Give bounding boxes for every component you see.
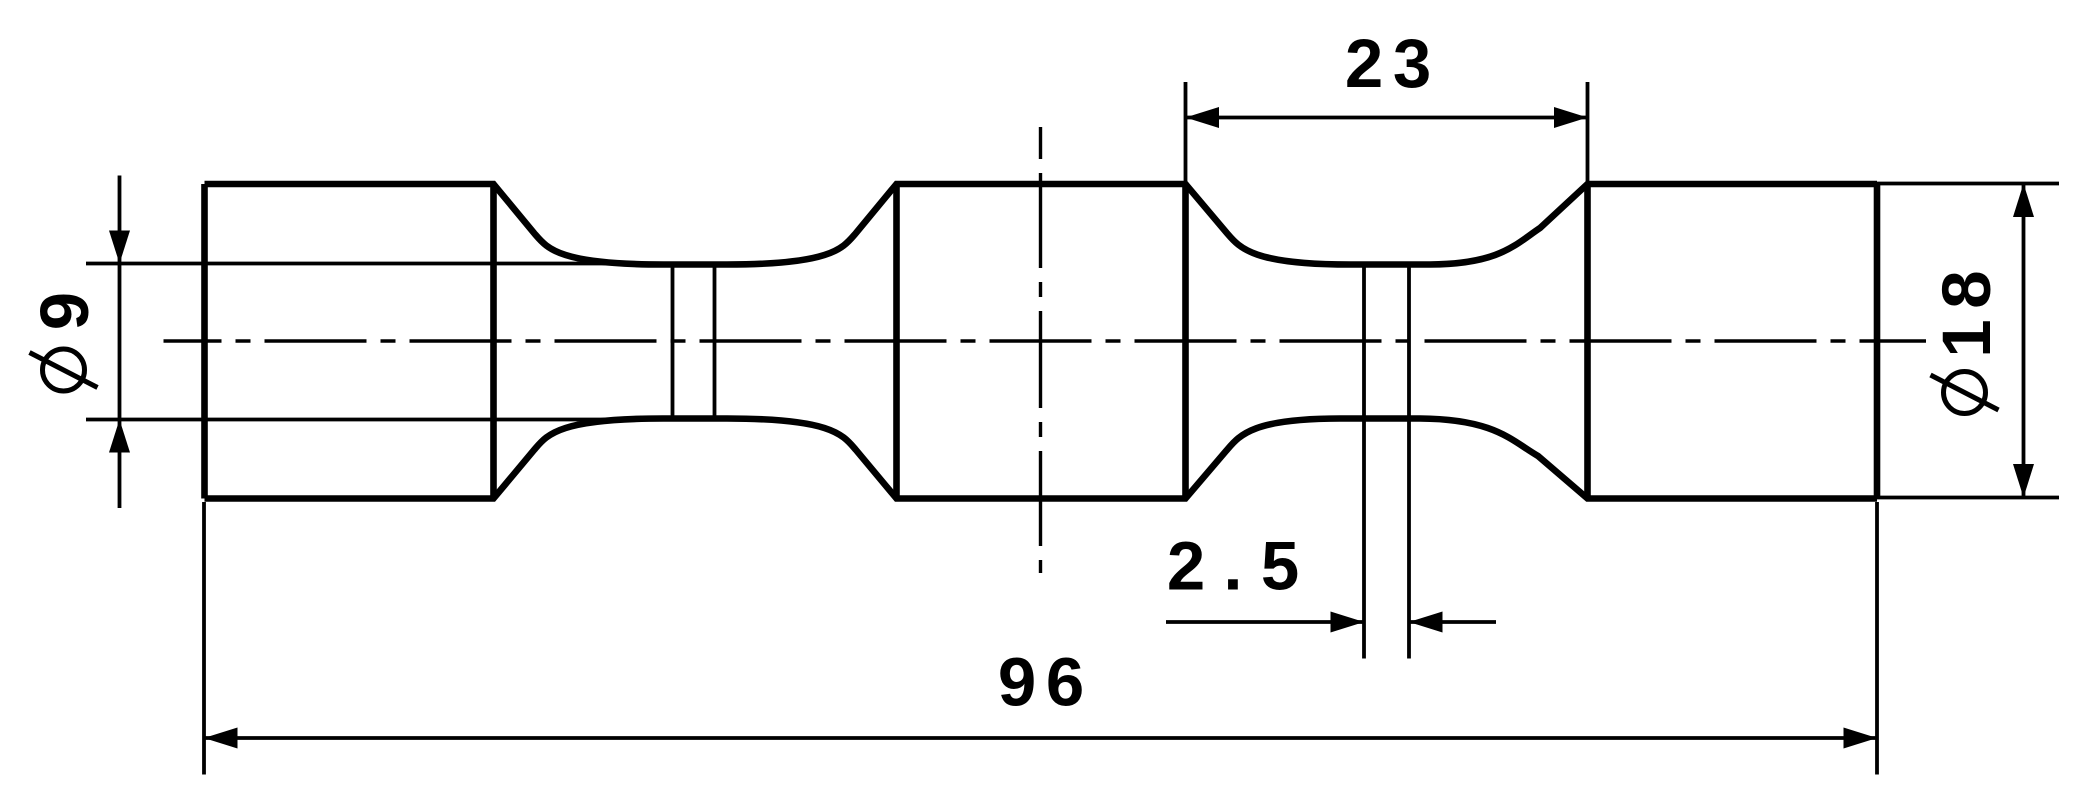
svg-text:5: 5 bbox=[1261, 528, 1299, 605]
svg-text:8: 8 bbox=[1928, 270, 2005, 308]
svg-text:9: 9 bbox=[26, 292, 103, 330]
svg-text:6: 6 bbox=[1046, 644, 1084, 721]
svg-text:3: 3 bbox=[1393, 25, 1431, 102]
svg-text:9: 9 bbox=[998, 644, 1036, 721]
svg-text:.: . bbox=[1223, 528, 1242, 605]
svg-text:1: 1 bbox=[1928, 319, 2005, 357]
svg-text:2: 2 bbox=[1345, 25, 1383, 102]
svg-text:2: 2 bbox=[1167, 528, 1205, 605]
